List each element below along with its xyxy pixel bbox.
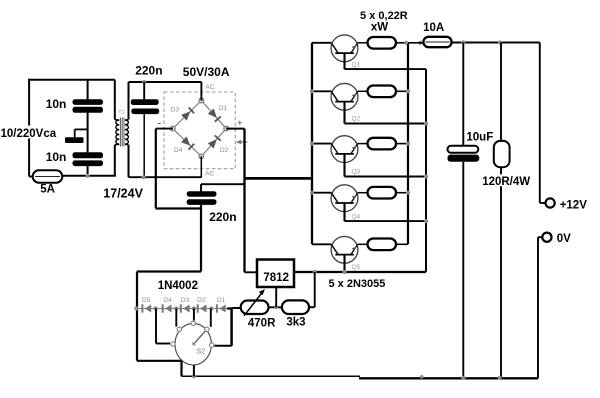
svg-text:S2: S2 bbox=[197, 349, 206, 356]
svg-text:D1: D1 bbox=[217, 297, 226, 304]
svg-text:220n: 220n bbox=[209, 210, 236, 224]
svg-text:Q3: Q3 bbox=[352, 169, 361, 176]
svg-text:1N4002: 1N4002 bbox=[158, 280, 198, 292]
svg-text:5 x 2N3055: 5 x 2N3055 bbox=[329, 278, 386, 290]
svg-text:10/220Vca: 10/220Vca bbox=[1, 128, 57, 140]
svg-text:AC: AC bbox=[205, 171, 214, 178]
svg-text:10uF: 10uF bbox=[466, 132, 493, 144]
svg-text:0V: 0V bbox=[557, 233, 571, 245]
svg-text:17/24V: 17/24V bbox=[103, 186, 143, 200]
svg-text:10n: 10n bbox=[46, 97, 67, 111]
svg-text:+: + bbox=[237, 118, 242, 128]
svg-text:D4: D4 bbox=[174, 147, 183, 154]
svg-text:T1: T1 bbox=[118, 110, 124, 116]
svg-text:D4: D4 bbox=[163, 297, 172, 304]
svg-text:50V/30A: 50V/30A bbox=[183, 65, 230, 79]
svg-text:10n: 10n bbox=[46, 150, 67, 164]
svg-text:120R/4W: 120R/4W bbox=[482, 176, 530, 188]
svg-text:D1: D1 bbox=[219, 105, 228, 112]
svg-text:7812: 7812 bbox=[263, 272, 289, 284]
svg-text:D5: D5 bbox=[142, 297, 151, 304]
svg-text:D2: D2 bbox=[197, 297, 206, 304]
svg-text:D3: D3 bbox=[171, 107, 180, 114]
svg-text:220n: 220n bbox=[135, 64, 162, 78]
svg-text:5 x 0,22R: 5 x 0,22R bbox=[360, 10, 408, 22]
svg-text:470R: 470R bbox=[248, 317, 276, 329]
svg-text:10A: 10A bbox=[423, 22, 444, 34]
svg-text:AC: AC bbox=[206, 84, 215, 91]
svg-text:D3: D3 bbox=[181, 297, 190, 304]
svg-text:3k3: 3k3 bbox=[286, 316, 305, 328]
svg-text:+12V: +12V bbox=[560, 199, 588, 211]
svg-text:Q2: Q2 bbox=[352, 116, 361, 123]
svg-text:5A: 5A bbox=[40, 184, 55, 196]
svg-text:Q1: Q1 bbox=[352, 61, 361, 68]
svg-text:D2: D2 bbox=[220, 147, 229, 154]
svg-text:Q5: Q5 bbox=[352, 264, 361, 271]
svg-text:xW: xW bbox=[371, 22, 388, 34]
svg-text:Q4: Q4 bbox=[352, 213, 361, 220]
